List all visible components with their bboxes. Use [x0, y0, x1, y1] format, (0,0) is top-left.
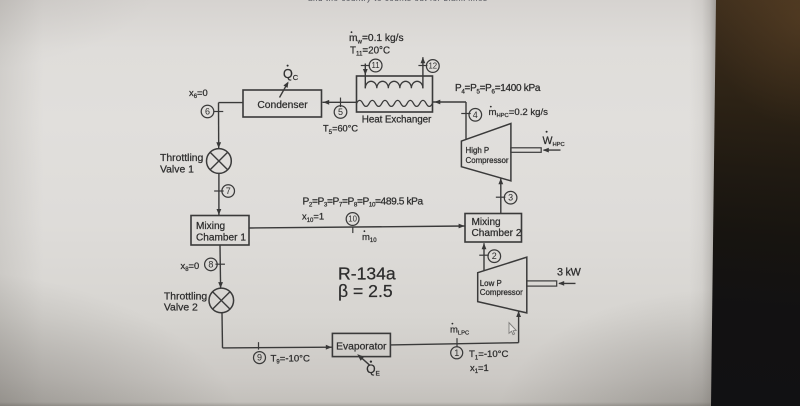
svg-text:QC​: QC​: [283, 67, 299, 82]
svg-text:WHPC​: WHPC​: [543, 135, 565, 148]
svg-text:T1​=-10°C: T1​=-10°C: [469, 349, 509, 361]
svg-text:Mixing: Mixing: [472, 217, 501, 228]
svg-text:10: 10: [348, 215, 357, 224]
svg-text:Throttling: Throttling: [160, 153, 204, 164]
svg-text:12: 12: [428, 62, 437, 71]
svg-text:High P: High P: [466, 146, 490, 155]
svg-text:6: 6: [205, 107, 210, 117]
svg-text:4: 4: [473, 110, 478, 120]
svg-text:Valve 1: Valve 1: [160, 164, 194, 175]
svg-text:x10​=1: x10​=1: [302, 211, 324, 224]
svg-text:x8​=0: x8​=0: [181, 260, 200, 273]
svg-text:8: 8: [208, 259, 213, 269]
svg-text:1: 1: [454, 348, 459, 358]
svg-text:P2​=P3​=P7​=P8​=P10​=489.5 kPa: P2​=P3​=P7​=P8​=P10​=489.5 kPa: [303, 196, 424, 208]
svg-text:Condenser: Condenser: [257, 100, 308, 111]
svg-text:Evaporator: Evaporator: [336, 341, 387, 352]
svg-text:3 kW: 3 kW: [557, 266, 582, 278]
svg-text:9: 9: [257, 353, 262, 363]
svg-text:mLPC​: mLPC​: [450, 324, 469, 336]
svg-text:2: 2: [492, 251, 497, 261]
svg-text:11: 11: [372, 61, 380, 70]
svg-text:Compressor: Compressor: [466, 156, 509, 165]
svg-text:T9​=-10°C: T9​=-10°C: [271, 353, 311, 365]
svg-text:β = 2.5: β = 2.5: [338, 281, 393, 301]
svg-text:x1​=1: x1​=1: [470, 362, 489, 375]
svg-text:Chamber 2: Chamber 2: [472, 228, 522, 239]
svg-text:Low P: Low P: [480, 279, 502, 288]
svg-text:3: 3: [508, 193, 513, 203]
svg-text:x6​=0: x6​=0: [189, 87, 208, 100]
svg-text:5: 5: [338, 107, 343, 117]
svg-text:T5​=60°C: T5​=60°C: [323, 124, 358, 136]
svg-text:P4​=P5​=P6​=1400 kPa: P4​=P5​=P6​=1400 kPa: [455, 83, 541, 95]
svg-text:7: 7: [226, 186, 231, 196]
svg-text:Heat Exchanger: Heat Exchanger: [362, 115, 432, 126]
svg-text:Valve 2: Valve 2: [164, 302, 198, 313]
svg-text:QE​: QE​: [366, 362, 380, 377]
svg-text:Mixing: Mixing: [196, 221, 225, 232]
svg-text:Throttling: Throttling: [164, 291, 208, 302]
svg-text:m10​: m10​: [362, 232, 377, 244]
svg-text:mHPC​=0.2 kg/s: mHPC​=0.2 kg/s: [489, 107, 549, 119]
svg-text:mw​=0.1 kg/s: mw​=0.1 kg/s: [349, 33, 404, 45]
svg-text:T11​=20°C: T11​=20°C: [350, 45, 390, 57]
svg-text:Compressor: Compressor: [480, 288, 523, 297]
svg-text:Chamber 1: Chamber 1: [196, 233, 246, 244]
